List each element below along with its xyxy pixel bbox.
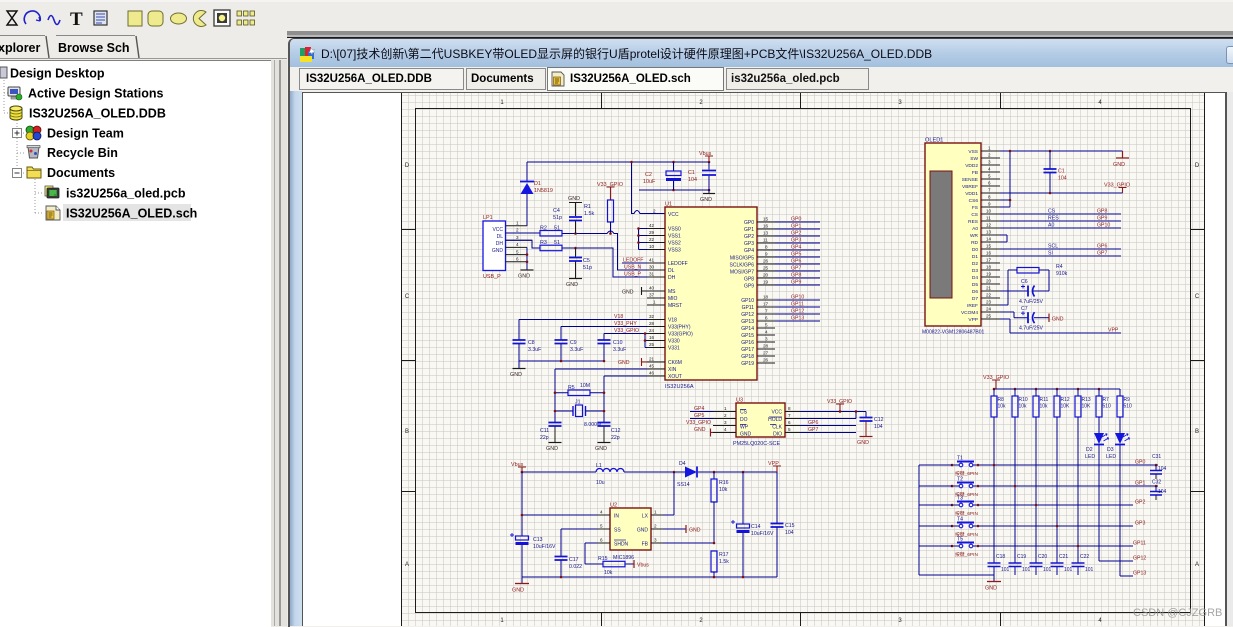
capacitor C1 <box>688 162 716 193</box>
ground below C5 <box>566 279 582 289</box>
svg-text:GP18: GP18 <box>741 354 754 360</box>
svg-text:R15: R15 <box>598 556 608 562</box>
svg-text:GP5: GP5 <box>791 252 801 258</box>
svg-text:2: 2 <box>654 524 657 529</box>
net label LEDOFF <box>622 258 647 264</box>
svg-text:4: 4 <box>600 510 603 515</box>
wire WR/RD tie <box>1000 235 1007 242</box>
svg-text:DIO: DIO <box>773 432 782 438</box>
svg-text:7: 7 <box>788 413 791 418</box>
tree (svg) <box>0 60 271 626</box>
svg-text:6: 6 <box>788 420 791 425</box>
zone labels <box>405 100 1200 624</box>
svg-text:27: 27 <box>763 351 769 356</box>
svg-text:U1: U1 <box>665 202 672 208</box>
svg-text:LX: LX <box>642 514 649 520</box>
svg-text:GP4: GP4 <box>744 248 754 254</box>
ground OLED VSS <box>1113 151 1129 168</box>
svg-text:C: C <box>1195 294 1200 300</box>
svg-text:V330: V330 <box>668 339 680 345</box>
power port GND at MS <box>622 287 647 296</box>
wire VPP net at OLED <box>1000 319 1121 333</box>
svg-text:VSS3: VSS3 <box>668 248 681 254</box>
svg-text:GND: GND <box>568 196 580 202</box>
ground below C12 <box>595 443 611 453</box>
icon: Design Team <box>26 126 41 140</box>
svg-text:CS: CS <box>1048 209 1056 215</box>
IC U1 IS32U256A <box>665 202 757 391</box>
svg-text:C11: C11 <box>540 428 549 434</box>
node key matrix junctions <box>993 464 1158 548</box>
svg-text:VDD2: VDD2 <box>965 163 978 169</box>
wire V33_PHY row <box>561 326 647 328</box>
svg-text:GP0: GP0 <box>791 217 801 223</box>
svg-text:D: D <box>405 163 410 169</box>
svg-text:13: 13 <box>986 230 992 235</box>
node DL junction <box>574 232 577 235</box>
wire key row GP3 <box>978 525 1133 527</box>
svg-text:D4: D4 <box>972 275 978 281</box>
svg-text:RD: RD <box>971 240 978 246</box>
svg-text:C7: C7 <box>1021 306 1028 312</box>
svg-text:GP19: GP19 <box>741 361 754 367</box>
svg-text:GP9: GP9 <box>791 280 801 286</box>
svg-text:D2: D2 <box>972 261 978 267</box>
svg-text:104: 104 <box>874 424 883 430</box>
svg-text:M00822-VGM12806487B01: M00822-VGM12806487B01 <box>922 330 984 336</box>
svg-text:3: 3 <box>516 235 519 240</box>
svg-text:GND: GND <box>985 586 997 592</box>
svg-text:GP15: GP15 <box>741 333 754 339</box>
svg-text:C9: C9 <box>570 340 577 346</box>
svg-text:C22: C22 <box>1080 554 1089 560</box>
switch T3 <box>951 496 980 518</box>
svg-text:LED: LED <box>1085 454 1095 460</box>
svg-text:GP14: GP14 <box>741 326 754 332</box>
svg-text:10: 10 <box>649 244 655 249</box>
svg-text:1: 1 <box>988 146 991 151</box>
power port V33_GPIO at U3 VCC <box>827 399 852 412</box>
svg-text:1: 1 <box>653 300 656 305</box>
svg-text:2: 2 <box>724 413 727 418</box>
svg-text:LEDOFF: LEDOFF <box>623 258 643 264</box>
svg-text:GP2: GP2 <box>791 231 801 237</box>
svg-text:13: 13 <box>763 231 769 236</box>
svg-text:C6: C6 <box>1021 279 1028 285</box>
svg-text:104: 104 <box>1158 466 1167 472</box>
svg-text:C5: C5 <box>583 258 590 264</box>
svg-text:R11: R11 <box>1040 397 1049 403</box>
svg-text:GP4: GP4 <box>694 406 704 412</box>
icon: Documents folder <box>27 167 41 178</box>
svg-text:10uF/16V: 10uF/16V <box>751 531 774 537</box>
svg-text:R9: R9 <box>1124 397 1131 403</box>
wire key matrix top rail <box>994 388 1120 390</box>
top toolbar <box>0 0 1233 39</box>
svg-text:10: 10 <box>986 209 992 214</box>
svg-text:2: 2 <box>988 153 991 158</box>
svg-text:C15: C15 <box>785 523 795 529</box>
svg-text:10K: 10K <box>1061 404 1071 410</box>
resistor R12 10K <box>1054 389 1070 417</box>
svg-text:25: 25 <box>763 266 769 271</box>
IC OLED1 display <box>922 138 1000 336</box>
svg-text:DL: DL <box>497 234 504 240</box>
svg-text:D: D <box>1195 163 1200 169</box>
svg-text:GP8: GP8 <box>744 277 754 283</box>
svg-text:GP2: GP2 <box>1135 500 1145 506</box>
svg-text:CLK: CLK <box>772 425 782 431</box>
svg-text:GP6: GP6 <box>791 259 801 265</box>
svg-text:GND: GND <box>689 528 701 534</box>
svg-text:GND: GND <box>740 432 752 438</box>
title bar <box>290 39 1233 68</box>
svg-text:28: 28 <box>649 321 655 326</box>
svg-text:17: 17 <box>763 302 769 307</box>
svg-text:1: 1 <box>724 406 727 411</box>
power port V33_GPIO at R1 <box>597 182 623 200</box>
svg-text:GP12: GP12 <box>1133 556 1146 562</box>
svg-text:7: 7 <box>765 309 768 314</box>
svg-text:V18: V18 <box>668 318 677 324</box>
svg-text:VSS: VSS <box>968 149 978 155</box>
svg-text:V33_GPIO: V33_GPIO <box>614 328 639 334</box>
wire U3 VCC net <box>800 412 866 419</box>
svg-text:GP13: GP13 <box>791 316 804 322</box>
svg-text:GP12: GP12 <box>791 309 804 315</box>
svg-text:C21: C21 <box>1059 554 1068 560</box>
svg-text:D6: D6 <box>972 289 978 295</box>
svg-text:VPP: VPP <box>968 317 978 323</box>
window right edge <box>1225 92 1227 626</box>
ground LP1 <box>518 270 534 280</box>
svg-text:31: 31 <box>649 272 655 277</box>
svg-text:23: 23 <box>986 300 992 305</box>
svg-text:V33(PHY): V33(PHY) <box>668 325 691 331</box>
svg-text:GP16: GP16 <box>741 340 754 346</box>
svg-text:R12: R12 <box>1061 397 1070 403</box>
svg-text:GP11: GP11 <box>742 305 755 311</box>
capacitor C18 101 <box>988 554 1010 575</box>
svg-text:VCOM4: VCOM4 <box>961 310 978 316</box>
svg-text:D3: D3 <box>1107 447 1114 453</box>
svg-text:GP4: GP4 <box>791 245 801 251</box>
capacitor C32 104 <box>1150 480 1167 501</box>
wire key row GP13 <box>1120 575 1133 577</box>
svg-text:12: 12 <box>986 223 992 228</box>
wire LX net <box>663 472 674 515</box>
svg-text:16: 16 <box>986 251 992 256</box>
wire GP0-GP9 <box>775 222 820 285</box>
svg-text:GND: GND <box>618 360 630 366</box>
svg-text:45: 45 <box>649 364 655 369</box>
capacitor C6 4.7uF/25V <box>1000 279 1043 305</box>
svg-text:16: 16 <box>763 224 769 229</box>
svg-text:DH: DH <box>668 275 676 281</box>
document tabs <box>299 68 464 90</box>
wire XOUT <box>604 376 647 422</box>
svg-text:A0: A0 <box>1048 223 1054 229</box>
svg-text:XOUT: XOUT <box>668 374 682 380</box>
power port V33_GPIO at keys <box>983 375 1009 389</box>
svg-text:101: 101 <box>1043 567 1052 573</box>
U1 right pin stubs group1 <box>757 222 775 363</box>
svg-text:2: 2 <box>653 209 656 214</box>
icon: Recycle Bin <box>27 146 40 159</box>
svg-text:C18: C18 <box>996 554 1005 560</box>
svg-text:J1: J1 <box>575 400 581 406</box>
panel divider <box>271 60 287 626</box>
toolbar icons svg <box>0 0 280 32</box>
svg-text:GP9: GP9 <box>744 284 754 290</box>
svg-text:6: 6 <box>516 257 519 262</box>
svg-text:104: 104 <box>785 530 794 536</box>
power port Vbus at regulator <box>511 462 526 472</box>
svg-text:22p: 22p <box>540 435 549 441</box>
svg-text:VSS2: VSS2 <box>668 241 681 247</box>
svg-text:GP11: GP11 <box>1133 541 1146 547</box>
svg-text:8: 8 <box>788 406 791 411</box>
svg-text:VBREF: VBREF <box>962 184 978 190</box>
capacitor C22 101 <box>1072 554 1094 575</box>
svg-text:51p: 51p <box>553 215 562 221</box>
svg-text:DH: DH <box>496 241 504 247</box>
svg-text:5: 5 <box>765 323 768 328</box>
resistor R3 51 <box>540 240 562 251</box>
svg-text:FB: FB <box>972 170 978 176</box>
wire DIO GP7 <box>800 427 856 433</box>
svg-text:IN: IN <box>614 514 619 520</box>
svg-text:3: 3 <box>724 420 727 425</box>
svg-text:RES: RES <box>1048 216 1059 222</box>
svg-text:3: 3 <box>765 337 768 342</box>
svg-text:24: 24 <box>986 307 992 312</box>
svg-text:SW: SW <box>970 156 978 162</box>
titlebar button cut at edge <box>1226 46 1233 64</box>
svg-text:CK6M: CK6M <box>668 360 682 366</box>
svg-text:WP: WP <box>740 425 749 431</box>
svg-text:40: 40 <box>649 286 655 291</box>
svg-text:OLED1: OLED1 <box>925 138 943 144</box>
svg-text:GP10: GP10 <box>741 298 754 304</box>
svg-text:101: 101 <box>1001 567 1010 573</box>
svg-text:A: A <box>405 562 409 568</box>
svg-text:R17: R17 <box>719 552 729 558</box>
wire CLK GP6 <box>800 420 856 426</box>
svg-text:GND: GND <box>546 446 558 452</box>
power port GND at C7 <box>1049 314 1064 323</box>
svg-text:VCC: VCC <box>668 212 679 218</box>
power port GND at CK6M <box>618 358 647 366</box>
svg-text:21: 21 <box>986 286 992 291</box>
resistor R1 1.5k <box>584 200 614 234</box>
net labels GP rows <box>1133 460 1146 577</box>
wire V33 sub rail <box>639 189 709 191</box>
svg-text:1.5k: 1.5k <box>584 211 594 217</box>
icon: Design Desktop (cut) <box>0 67 7 78</box>
svg-text:9: 9 <box>988 202 991 207</box>
svg-text:V33_PHY: V33_PHY <box>614 321 637 327</box>
svg-text:104: 104 <box>1158 489 1167 495</box>
power port Vbus at R15 <box>634 560 649 569</box>
switch T1 <box>951 456 980 478</box>
svg-text:SS: SS <box>614 528 621 534</box>
window left blue strip <box>290 91 302 626</box>
svg-text:D7: D7 <box>972 296 978 302</box>
wire caps bus <box>519 360 604 362</box>
svg-text:GP7: GP7 <box>791 266 801 272</box>
svg-text:41: 41 <box>649 258 655 263</box>
capacitor C12 104 at U3 <box>860 412 884 437</box>
svg-text:B: B <box>1195 429 1199 435</box>
resistor R4 910k <box>1008 264 1068 277</box>
svg-text:WR: WR <box>970 233 979 239</box>
wire SHDN net + resistor R15 10k <box>585 543 634 576</box>
svg-text:8: 8 <box>765 245 768 250</box>
svg-text:22: 22 <box>649 237 655 242</box>
svg-text:GP6: GP6 <box>1097 244 1107 250</box>
svg-text:GP7: GP7 <box>808 427 818 433</box>
resistor R2 51 <box>540 226 562 237</box>
svg-text:GP3: GP3 <box>1135 521 1145 527</box>
svg-text:2: 2 <box>516 228 519 233</box>
svg-text:D1: D1 <box>972 254 978 260</box>
svg-text:4.7uF/25V: 4.7uF/25V <box>1019 299 1043 305</box>
svg-text:C32: C32 <box>1152 480 1161 486</box>
svg-text:V33_GPIO: V33_GPIO <box>686 420 711 426</box>
svg-text:D1: D1 <box>534 181 541 187</box>
wire CS net <box>1000 209 1121 215</box>
svg-text:IS32U256A: IS32U256A <box>665 384 694 390</box>
svg-text:GP5: GP5 <box>694 413 704 419</box>
power port Vbus <box>699 151 713 162</box>
svg-text:GP1: GP1 <box>1135 481 1145 487</box>
sheet inner frame <box>416 109 1191 613</box>
capacitor C4 51p <box>553 208 582 234</box>
svg-text:GND: GND <box>694 427 706 433</box>
svg-text:GND: GND <box>857 440 869 446</box>
svg-text:GND: GND <box>700 197 712 203</box>
title icon <box>300 47 315 63</box>
svg-text:1N5819: 1N5819 <box>534 188 553 194</box>
svg-text:R7: R7 <box>1103 397 1110 403</box>
svg-text:22: 22 <box>986 293 992 298</box>
svg-text:SS14: SS14 <box>677 482 690 488</box>
svg-text:DL: DL <box>668 268 675 274</box>
ground below C11 <box>546 443 562 453</box>
power port GND at U3 <box>694 427 713 437</box>
wire SCL net <box>1000 244 1121 250</box>
svg-text:按键_6PIN: 按键_6PIN <box>955 551 978 558</box>
svg-text:SHDN: SHDN <box>614 542 629 548</box>
svg-text:101: 101 <box>1022 567 1031 573</box>
svg-text:PM25LQ020C-SCE: PM25LQ020C-SCE <box>733 441 780 447</box>
svg-text:510: 510 <box>1103 404 1112 410</box>
svg-text:MS: MS <box>668 289 676 295</box>
wire V18 row <box>519 319 647 321</box>
svg-text:4: 4 <box>724 427 727 432</box>
svg-text:4: 4 <box>765 330 768 335</box>
svg-text:46: 46 <box>649 371 655 376</box>
svg-text:26: 26 <box>763 358 769 363</box>
svg-text:MIC1896: MIC1896 <box>613 555 634 561</box>
svg-text:10k: 10k <box>998 404 1007 410</box>
svg-text:GP11: GP11 <box>791 302 804 308</box>
svg-text:GP9: GP9 <box>1097 216 1107 222</box>
svg-text:29: 29 <box>649 230 655 235</box>
svg-text:22p: 22p <box>611 435 620 441</box>
svg-text:GP6: GP6 <box>808 420 818 426</box>
svg-text:51: 51 <box>554 226 560 232</box>
svg-text:R10: R10 <box>1019 397 1028 403</box>
sheet background grid <box>401 93 1205 626</box>
svg-text:20: 20 <box>986 279 992 284</box>
svg-text:U3: U3 <box>736 398 743 404</box>
svg-text:3.3uF: 3.3uF <box>613 347 626 353</box>
svg-text:R1: R1 <box>584 204 591 210</box>
power port GND at U2 <box>663 525 701 534</box>
svg-text:C20: C20 <box>1038 554 1047 560</box>
svg-text:C12: C12 <box>874 417 884 423</box>
svg-text:SI: SI <box>1048 251 1053 257</box>
svg-text:V18: V18 <box>614 314 623 320</box>
svg-text:5: 5 <box>788 427 791 432</box>
wire Vbus top rail <box>527 161 709 163</box>
icon: pcb doc <box>45 186 59 198</box>
IC U2 MIC1896 <box>597 503 663 562</box>
svg-text:8: 8 <box>988 195 991 200</box>
wire VSS rail <box>639 229 648 250</box>
svg-text:C31: C31 <box>1152 454 1161 460</box>
svg-text:10k: 10k <box>1040 404 1049 410</box>
diode D4 SS14 <box>677 461 697 488</box>
U1 left pin stubs <box>647 229 665 377</box>
svg-text:GND: GND <box>518 274 530 280</box>
resistor R13 10K <box>1075 389 1091 417</box>
svg-text:FB: FB <box>642 542 649 548</box>
svg-text:4: 4 <box>988 167 991 172</box>
svg-text:MISO/GP5: MISO/GP5 <box>730 256 754 262</box>
canvas <box>302 92 1225 626</box>
icon: Active Design Stations <box>8 87 22 100</box>
ground below C1 <box>700 194 715 204</box>
svg-text:10uF/16V: 10uF/16V <box>533 544 556 550</box>
svg-text:VSS0: VSS0 <box>668 227 681 233</box>
capacitor C7 4.7uF/25V <box>1000 306 1049 332</box>
ground key matrix <box>985 575 1001 592</box>
svg-text:101: 101 <box>1064 567 1073 573</box>
svg-text:16: 16 <box>649 335 655 340</box>
svg-text:GP8: GP8 <box>1097 209 1107 215</box>
svg-text:C4: C4 <box>553 208 560 214</box>
wire A0 net <box>1000 223 1121 229</box>
svg-text:B: B <box>405 429 409 435</box>
svg-text:R5: R5 <box>568 385 575 391</box>
svg-text:910k: 910k <box>1056 271 1068 277</box>
svg-text:1.5k: 1.5k <box>719 559 729 565</box>
capacitor C10 3.3uF <box>598 334 627 362</box>
wire DH net <box>506 240 648 277</box>
inductor L1 10u <box>596 463 624 486</box>
svg-text:1: 1 <box>516 221 519 226</box>
resistor R16 10k <box>711 472 729 543</box>
svg-text:0.022: 0.022 <box>569 564 582 570</box>
svg-text:VCC: VCC <box>492 227 503 233</box>
svg-text:V33(GPIO): V33(GPIO) <box>668 332 693 338</box>
sheet outer borders <box>402 93 1205 626</box>
svg-text:18: 18 <box>986 265 992 270</box>
svg-text:R2: R2 <box>540 226 547 232</box>
